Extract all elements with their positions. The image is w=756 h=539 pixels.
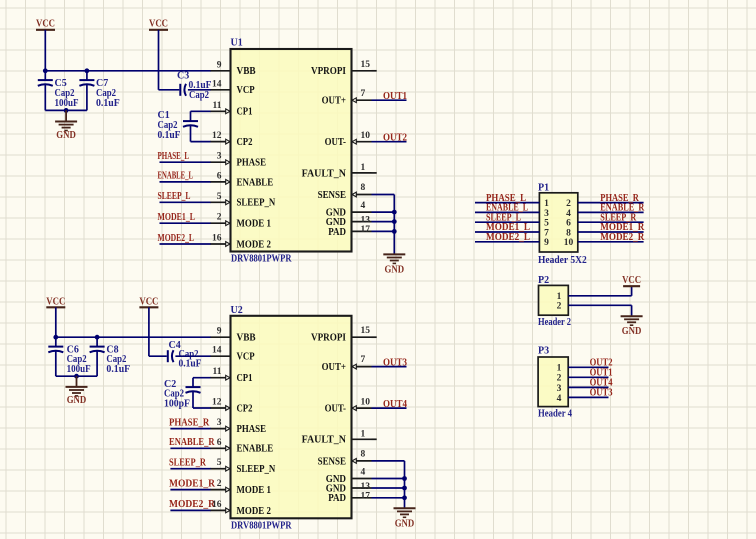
power VCC symbol bottom-left bbox=[46, 296, 65, 307]
wire SENSE to ground rail (U2) bbox=[372, 461, 405, 508]
U2 pin 1 FAULT_N bbox=[302, 429, 377, 445]
svg-text:VCC: VCC bbox=[622, 275, 641, 286]
svg-text:OUT+: OUT+ bbox=[322, 96, 347, 107]
ground GND at U2 bbox=[394, 508, 416, 529]
svg-text:MODE 2: MODE 2 bbox=[237, 239, 271, 250]
U2 pin 7 OUT+ bbox=[322, 355, 372, 373]
svg-text:3: 3 bbox=[217, 152, 222, 162]
wire cap bottoms to ground (bottom) bbox=[56, 375, 97, 377]
svg-text:DRV8801PWPR: DRV8801PWPR bbox=[231, 254, 292, 265]
svg-text:6: 6 bbox=[217, 171, 222, 181]
svg-text:14: 14 bbox=[212, 79, 222, 89]
svg-text:9: 9 bbox=[544, 238, 549, 248]
wire GND pin 4 to rail bbox=[372, 210, 397, 215]
net label OUT1 with wire bbox=[372, 91, 408, 102]
svg-text:FAULT_N: FAULT_N bbox=[302, 168, 347, 179]
svg-text:SLEEP_L: SLEEP_L bbox=[158, 191, 191, 202]
wire VBB rail to U2 pin 9 bbox=[56, 336, 211, 338]
svg-text:VCP: VCP bbox=[237, 85, 255, 96]
junction at ground stem bbox=[64, 108, 69, 113]
svg-text:10: 10 bbox=[564, 238, 574, 248]
svg-text:11: 11 bbox=[213, 367, 222, 377]
net label OUT2 with wire bbox=[372, 133, 408, 144]
connector P3 Header 4 body bbox=[538, 346, 572, 420]
U1 pin 1 FAULT_N bbox=[302, 163, 377, 179]
net label MODE1_L with wire bbox=[158, 212, 212, 223]
P1 pin 2 with net PHASE_R bbox=[566, 193, 643, 209]
svg-text:0.1uF: 0.1uF bbox=[179, 358, 202, 369]
U2 pin 5 SLEEP_N bbox=[211, 458, 276, 475]
svg-text:6: 6 bbox=[217, 438, 222, 448]
U1 pin 16 MODE 2 bbox=[211, 234, 271, 251]
net label MODE2_R with wire bbox=[169, 499, 216, 510]
wire VCC4 down to VCP net bbox=[149, 307, 167, 356]
U2 pin 16 MODE 2 bbox=[211, 500, 271, 517]
svg-text:7: 7 bbox=[361, 89, 366, 99]
U1 pin 10 OUT- bbox=[325, 131, 372, 148]
U1 pin 11 CP1 bbox=[211, 101, 253, 118]
svg-text:Header 2: Header 2 bbox=[538, 317, 571, 328]
U1 pin 14 VCP bbox=[211, 79, 255, 96]
svg-text:CP1: CP1 bbox=[237, 107, 253, 118]
P3 pin 2 with net OUT1 bbox=[557, 367, 613, 383]
U1 pin 15 VPROPI bbox=[311, 60, 377, 77]
svg-text:Header 4: Header 4 bbox=[538, 409, 572, 420]
P1 pin 10 with net MODE2_R bbox=[564, 232, 645, 248]
wire VCC2 down to VCP net bbox=[159, 30, 180, 90]
svg-text:MODE2_L: MODE2_L bbox=[486, 232, 530, 243]
ground GND bottom-left bbox=[66, 376, 88, 406]
P1 pin 5 with net SLEEP_L bbox=[475, 212, 549, 228]
wire VBB rail to U1 pin 9 bbox=[45, 70, 211, 72]
svg-text:8: 8 bbox=[361, 450, 366, 460]
U1 pin 8 SENSE bbox=[318, 183, 372, 201]
svg-text:OUT1: OUT1 bbox=[383, 91, 407, 102]
U1 pin 13 GND bbox=[326, 216, 372, 229]
svg-text:OUT4: OUT4 bbox=[383, 399, 407, 410]
svg-text:17: 17 bbox=[361, 225, 371, 235]
svg-text:0.1uF: 0.1uF bbox=[106, 364, 130, 375]
U1 pin 2 MODE 1 bbox=[211, 213, 271, 230]
svg-text:PHASE: PHASE bbox=[237, 424, 267, 435]
U1 pin 9 VBB bbox=[211, 60, 256, 77]
svg-text:GND: GND bbox=[395, 518, 415, 529]
U2 pin 9 VBB bbox=[211, 327, 256, 344]
svg-text:VBB: VBB bbox=[237, 66, 256, 77]
svg-text:SENSE: SENSE bbox=[318, 190, 347, 201]
svg-text:4: 4 bbox=[361, 201, 366, 211]
svg-text:OUT3: OUT3 bbox=[590, 387, 613, 398]
svg-text:P2: P2 bbox=[538, 275, 549, 286]
svg-text:9: 9 bbox=[217, 327, 222, 337]
junction at ground stem (bottom) bbox=[74, 374, 79, 379]
svg-text:1: 1 bbox=[544, 199, 549, 209]
svg-text:P3: P3 bbox=[538, 346, 549, 357]
svg-text:MODE2_R: MODE2_R bbox=[600, 232, 645, 243]
U1 pin 6 ENABLE bbox=[211, 171, 274, 188]
svg-text:VCC: VCC bbox=[139, 296, 158, 307]
U2 pin 8 SENSE bbox=[318, 450, 372, 468]
P2 pin 2 wire to GND bbox=[557, 302, 632, 317]
svg-text:100uF: 100uF bbox=[67, 364, 91, 375]
svg-text:VCC: VCC bbox=[46, 296, 65, 307]
power VCC symbol top-left bbox=[36, 19, 55, 30]
net label OUT3 with wire bbox=[372, 358, 408, 369]
ground GND at U1 bbox=[383, 254, 405, 275]
power VCC at P2 bbox=[622, 275, 641, 286]
capacitor C8 0.1uF bbox=[90, 337, 131, 376]
svg-text:14: 14 bbox=[212, 346, 222, 356]
capacitor C6 100uF bbox=[48, 337, 90, 376]
svg-text:SENSE: SENSE bbox=[318, 456, 347, 467]
wire PAD pin 17 to rail (U2) bbox=[372, 495, 407, 500]
capacitor C7 0.1uF bbox=[79, 71, 119, 111]
U2 pin 14 VCP bbox=[211, 346, 255, 363]
svg-text:GND: GND bbox=[56, 130, 76, 141]
net label OUT4 with wire bbox=[372, 399, 408, 410]
svg-text:5: 5 bbox=[217, 192, 222, 202]
connector P2 Header 2 body bbox=[538, 275, 571, 328]
svg-text:ENABLE: ENABLE bbox=[237, 444, 274, 455]
svg-text:OUT2: OUT2 bbox=[383, 133, 407, 144]
svg-text:CP2: CP2 bbox=[237, 137, 253, 148]
P3 pin 3 with net OUT4 bbox=[557, 377, 613, 393]
svg-text:SLEEP_N: SLEEP_N bbox=[237, 464, 276, 475]
capacitor C1 0.1uF with wires to CP1/CP2 bbox=[158, 110, 212, 142]
capacitor C2 100pF with wires to CP1/CP2 bbox=[164, 378, 211, 410]
svg-text:SLEEP_N: SLEEP_N bbox=[237, 198, 276, 209]
U1 pin 7 OUT+ bbox=[322, 89, 372, 107]
svg-text:VCC: VCC bbox=[36, 19, 55, 30]
U2 pin 3 PHASE bbox=[211, 418, 267, 435]
svg-text:VBB: VBB bbox=[237, 333, 256, 344]
svg-text:CP2: CP2 bbox=[237, 403, 253, 414]
U2 pin 6 ENABLE bbox=[211, 438, 274, 455]
svg-text:3: 3 bbox=[557, 384, 562, 394]
net label MODE1_R with wire bbox=[169, 478, 216, 489]
svg-text:VPROPI: VPROPI bbox=[311, 66, 346, 77]
capacitor C3 0.1uF bbox=[177, 71, 212, 102]
svg-text:U1: U1 bbox=[231, 38, 243, 49]
P1 pin 6 with net SLEEP_R bbox=[566, 212, 643, 228]
svg-text:MODE 1: MODE 1 bbox=[237, 485, 271, 496]
svg-text:3: 3 bbox=[217, 418, 222, 428]
U2 pin 15 VPROPI bbox=[311, 326, 377, 343]
svg-text:4: 4 bbox=[557, 394, 562, 404]
svg-text:2: 2 bbox=[566, 199, 571, 209]
svg-text:VCC: VCC bbox=[149, 19, 168, 30]
svg-text:OUT+: OUT+ bbox=[322, 362, 347, 373]
junction at C8 bbox=[95, 335, 100, 340]
net label SLEEP_L with wire bbox=[158, 191, 212, 202]
U1 pin 3 PHASE bbox=[211, 152, 267, 169]
svg-text:PHASE_R: PHASE_R bbox=[169, 417, 210, 428]
U1 pin 5 SLEEP_N bbox=[211, 192, 276, 209]
net label PHASE_R with wire bbox=[169, 417, 211, 428]
svg-text:3: 3 bbox=[544, 209, 549, 219]
wire cap bottoms to ground bbox=[45, 109, 87, 111]
U1 pin 17 PAD bbox=[328, 225, 371, 238]
svg-text:U2: U2 bbox=[231, 305, 243, 316]
svg-text:100uF: 100uF bbox=[55, 98, 79, 109]
svg-text:0.1uF: 0.1uF bbox=[158, 130, 181, 141]
svg-text:PHASE_L: PHASE_L bbox=[158, 151, 190, 162]
net label MODE2_L with wire bbox=[158, 233, 212, 244]
svg-text:13: 13 bbox=[361, 216, 371, 226]
svg-text:2: 2 bbox=[557, 302, 562, 312]
wire C3 to U1 pin 14 bbox=[188, 89, 211, 91]
junction at C7 bbox=[85, 68, 90, 73]
svg-text:MODE 1: MODE 1 bbox=[237, 219, 271, 230]
connector P1 Header 5X2 body bbox=[538, 182, 587, 265]
svg-text:6: 6 bbox=[566, 219, 571, 229]
svg-text:10: 10 bbox=[361, 131, 371, 141]
wire C4 to U2 pin 14 bbox=[175, 355, 211, 357]
svg-text:PAD: PAD bbox=[328, 493, 346, 504]
svg-text:VCP: VCP bbox=[237, 352, 255, 363]
svg-text:1: 1 bbox=[557, 292, 562, 302]
svg-text:1: 1 bbox=[557, 364, 562, 374]
svg-text:P1: P1 bbox=[538, 182, 549, 193]
svg-text:2: 2 bbox=[557, 374, 562, 384]
net label PHASE_L with wire bbox=[158, 151, 212, 162]
U2 pin 10 OUT- bbox=[325, 397, 372, 414]
svg-text:15: 15 bbox=[361, 326, 371, 336]
svg-text:ENABLE: ENABLE bbox=[237, 177, 274, 188]
svg-text:MODE1_R: MODE1_R bbox=[169, 478, 216, 489]
svg-text:MODE2_L: MODE2_L bbox=[158, 233, 195, 244]
ground GND at P2 bbox=[621, 316, 643, 337]
capacitor C5 100uF bbox=[38, 71, 79, 111]
svg-text:7: 7 bbox=[361, 355, 366, 365]
svg-text:9: 9 bbox=[217, 60, 222, 70]
svg-text:2: 2 bbox=[217, 479, 222, 489]
ground GND top-left bbox=[55, 110, 77, 141]
P2 pin 1 wire to VCC bbox=[557, 286, 632, 302]
P1 pin 4 with net ENABLE_R bbox=[566, 203, 645, 219]
svg-text:13: 13 bbox=[361, 482, 371, 492]
P1 pin 9 with net MODE2_L bbox=[475, 232, 549, 248]
U2 pin 4 GND bbox=[326, 468, 372, 485]
P1 pin 7 with net MODE1_L bbox=[475, 222, 549, 238]
svg-text:OUT3: OUT3 bbox=[383, 358, 407, 369]
power VCC symbol 2 bbox=[149, 19, 168, 30]
svg-text:GND: GND bbox=[385, 265, 405, 276]
svg-text:16: 16 bbox=[212, 234, 222, 244]
net label ENABLE_R with wire bbox=[169, 437, 215, 448]
svg-text:OUT-: OUT- bbox=[325, 137, 346, 148]
junction at C6 bbox=[53, 335, 58, 340]
svg-text:15: 15 bbox=[361, 60, 371, 70]
svg-text:5: 5 bbox=[544, 219, 549, 229]
svg-text:MODE2_R: MODE2_R bbox=[169, 499, 216, 510]
svg-text:2: 2 bbox=[217, 213, 222, 223]
U2 pin 2 MODE 1 bbox=[211, 479, 271, 496]
svg-text:FAULT_N: FAULT_N bbox=[302, 435, 347, 446]
junction at C5 bbox=[43, 68, 48, 73]
svg-text:17: 17 bbox=[361, 491, 371, 501]
power VCC symbol 4 bbox=[139, 296, 158, 307]
net label SLEEP_R with wire bbox=[169, 458, 211, 469]
svg-text:8: 8 bbox=[566, 228, 571, 238]
svg-text:4: 4 bbox=[566, 209, 571, 219]
P3 pin 1 with net OUT2 bbox=[557, 357, 613, 373]
svg-text:VPROPI: VPROPI bbox=[311, 333, 346, 344]
P1 pin 1 with net PHASE_L bbox=[475, 193, 549, 209]
IC U2 body DRV8801PWPR bbox=[231, 305, 352, 532]
svg-text:10: 10 bbox=[361, 397, 371, 407]
IC U1 body DRV8801PWPR bbox=[231, 38, 352, 265]
svg-text:4: 4 bbox=[361, 468, 366, 478]
svg-text:5: 5 bbox=[217, 458, 222, 468]
svg-text:MODE1_L: MODE1_L bbox=[158, 212, 196, 223]
svg-text:PAD: PAD bbox=[328, 227, 346, 238]
svg-text:SLEEP_R: SLEEP_R bbox=[169, 458, 207, 469]
svg-text:7: 7 bbox=[544, 228, 549, 238]
wire PAD pin 17 to rail bbox=[372, 229, 397, 234]
svg-text:Cap2: Cap2 bbox=[189, 90, 209, 101]
U2 pin 11 CP1 bbox=[211, 367, 253, 384]
wire GND pin 13 to rail (U2) bbox=[372, 486, 407, 491]
svg-text:12: 12 bbox=[212, 398, 222, 408]
wire SENSE to ground rail bbox=[372, 195, 395, 254]
svg-text:MODE 2: MODE 2 bbox=[237, 506, 271, 517]
U2 pin 13 GND bbox=[326, 482, 372, 495]
svg-text:OUT-: OUT- bbox=[325, 404, 346, 415]
svg-text:ENABLE_R: ENABLE_R bbox=[169, 437, 215, 448]
svg-text:0.1uF: 0.1uF bbox=[96, 98, 120, 109]
svg-text:C3: C3 bbox=[177, 71, 189, 82]
svg-text:12: 12 bbox=[212, 131, 222, 141]
wire VCC to VBB rail bbox=[44, 30, 46, 71]
wire GND pin 4 to rail (U2) bbox=[372, 476, 407, 481]
svg-text:8: 8 bbox=[361, 183, 366, 193]
svg-text:GND: GND bbox=[622, 326, 642, 337]
capacitor C4 0.1uF bbox=[168, 340, 202, 369]
U1 pin 4 GND bbox=[326, 201, 372, 218]
U1 pin 12 CP2 bbox=[211, 131, 253, 148]
svg-text:1: 1 bbox=[361, 163, 366, 173]
svg-text:Header 5X2: Header 5X2 bbox=[538, 255, 587, 266]
net label ENABLE_L with wire bbox=[158, 171, 212, 182]
svg-text:ENABLE_L: ENABLE_L bbox=[158, 171, 194, 182]
svg-text:DRV8801PWPR: DRV8801PWPR bbox=[231, 520, 292, 531]
svg-text:100pF: 100pF bbox=[164, 398, 190, 409]
svg-text:PHASE: PHASE bbox=[237, 158, 267, 169]
U2 pin 12 CP2 bbox=[211, 398, 253, 415]
svg-text:CP1: CP1 bbox=[237, 373, 253, 384]
svg-text:GND: GND bbox=[67, 395, 87, 406]
svg-text:1: 1 bbox=[361, 429, 366, 439]
svg-text:11: 11 bbox=[213, 101, 222, 111]
P3 pin 4 with net OUT3 bbox=[557, 387, 613, 403]
U2 pin 17 PAD bbox=[328, 491, 371, 504]
P1 pin 3 with net ENABLE_L bbox=[475, 203, 549, 219]
wire VCC to U2 VBB rail bbox=[55, 307, 57, 337]
svg-text:16: 16 bbox=[212, 500, 222, 510]
P1 pin 8 with net MODE1_R bbox=[566, 222, 645, 238]
wire GND pin 13 to rail bbox=[372, 219, 397, 224]
